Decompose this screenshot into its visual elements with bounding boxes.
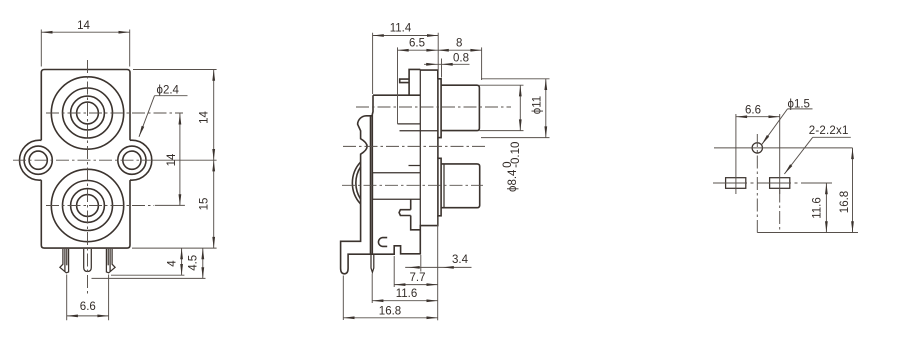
dimension 3.4: arrow b <box>443 266 454 269</box>
right column extension: body bottom <box>132 247 217 249</box>
dimension 4: extension bottom <box>111 274 184 276</box>
svg-text:7.7: 7.7 <box>410 272 426 284</box>
upper hidden line a <box>398 123 421 125</box>
upper barrel <box>441 85 479 130</box>
rounded tab B <box>378 238 387 247</box>
phi8.4 dimension line <box>519 85 521 130</box>
spring clip inner arc <box>356 167 361 199</box>
left pin inner line a <box>64 249 66 271</box>
right ear hole <box>123 151 141 169</box>
body white mask <box>41 70 130 249</box>
phi1.5 underline <box>788 108 813 110</box>
2-2.2x1 underline <box>813 136 851 138</box>
bottom RCA port circle 1 <box>51 169 123 241</box>
tab A vertical above <box>410 199 412 210</box>
dimension 0.8: left arrow <box>426 63 437 66</box>
top block 1 <box>409 69 420 95</box>
top RCA port circle 1 <box>51 77 123 149</box>
svg-text:11.6: 11.6 <box>396 288 418 300</box>
svg-text:14: 14 <box>199 111 211 124</box>
phi2.4 leader arrow <box>139 96 155 137</box>
left pin inner line b <box>66 249 68 265</box>
top RCA port circle 4 <box>77 102 99 124</box>
top RCA port circle 3 <box>71 96 105 130</box>
dimension 14 top: dimension line <box>41 31 129 33</box>
svg-text:15: 15 <box>199 198 211 211</box>
dimension 6.6: extension lines <box>67 275 109 321</box>
left ear hole <box>29 151 47 169</box>
mounting hole phi1.5 <box>752 143 762 153</box>
dimension 11.4: line <box>373 35 439 37</box>
vertical centerline through hole <box>756 134 758 233</box>
vertical centerline <box>87 60 89 295</box>
inter-flange edge <box>437 138 439 159</box>
upper flange <box>438 79 441 138</box>
main block top edge <box>373 94 420 96</box>
dimension 6.5: line <box>398 49 438 51</box>
ear horizontal centerline <box>13 159 152 161</box>
svg-text:2-2.2x1: 2-2.2x1 <box>809 125 849 137</box>
lower flange <box>438 158 441 216</box>
dimension 16.8: extension <box>342 276 344 321</box>
lower barrel centerline <box>342 184 483 186</box>
svg-text:4.5: 4.5 <box>187 255 199 271</box>
upper small tab <box>400 79 409 83</box>
dimension 7.7: line <box>394 284 438 286</box>
svg-text:14: 14 <box>77 20 90 32</box>
bottom RCA port circle 3 <box>71 189 105 223</box>
dimension 3.4: tail line <box>405 266 471 268</box>
dimension 6.6: dimension line <box>67 315 109 317</box>
dimension 16.8: line <box>343 317 437 319</box>
phi8.4 label with tolerance <box>502 142 522 192</box>
lower barrel face line <box>443 164 445 208</box>
svg-text:ϕ8.4: ϕ8.4 <box>507 169 519 192</box>
shared right extension line <box>437 217 439 321</box>
dimension 8: extension <box>481 47 483 80</box>
dimension 0.8: extension <box>441 59 443 78</box>
dimension 11.6: extension <box>371 274 373 304</box>
body outline <box>41 70 130 249</box>
phi11 dimension line <box>545 79 547 138</box>
svg-text:8: 8 <box>456 37 462 49</box>
upper hidden line b <box>400 130 438 132</box>
dimension 0.8: right arrow <box>442 63 453 66</box>
dimension 6.6: line <box>736 116 780 118</box>
top circle horizontal centerline <box>46 112 183 114</box>
tab A vertical below and step <box>411 216 421 230</box>
dimension 15 right lower: dimension line <box>213 160 215 248</box>
svg-text:11.6: 11.6 <box>811 197 823 219</box>
svg-text:14: 14 <box>166 153 178 166</box>
bottom circle horizontal centerline <box>46 205 154 207</box>
dimension 16.8: line <box>852 148 854 233</box>
dimension 8: line <box>438 49 482 51</box>
phi1.5 leader arrow <box>762 109 788 145</box>
dimension 0.8: tail line <box>424 63 470 65</box>
dimension 14 inner: dimension line <box>179 113 181 205</box>
svg-text:6.5: 6.5 <box>409 37 425 49</box>
bottom RCA port circle 2 <box>63 181 113 231</box>
bottom extension line <box>757 232 858 234</box>
front plate inner line <box>370 116 372 254</box>
right pin outline <box>106 249 115 273</box>
dimension 11.6: line <box>372 300 438 302</box>
svg-text:0.8: 0.8 <box>453 53 469 65</box>
horizontal centerline through hole <box>714 147 853 149</box>
dimension 14 inner: extension bottom <box>155 204 185 206</box>
phi11 extensions <box>481 79 550 138</box>
svg-text:6.6: 6.6 <box>80 301 96 313</box>
side view center pin <box>371 254 374 272</box>
lower barrel <box>441 164 480 208</box>
dimension 14 top: extension lines <box>41 30 129 67</box>
2-2.2x1 leader arrow <box>784 137 812 174</box>
dimension 4.5: extension bottom <box>92 277 206 279</box>
left pad <box>726 178 746 189</box>
right column extension: ear centerline <box>152 159 217 161</box>
horizontal centerline through pads <box>713 182 832 184</box>
upper barrel centerline <box>356 106 511 108</box>
svg-text:6.6: 6.6 <box>745 105 761 117</box>
internal vertical divider <box>419 69 421 225</box>
right ear ring outer <box>118 146 146 174</box>
dimension 11.6: line <box>825 183 827 233</box>
middle centerline <box>343 145 485 147</box>
front plate outer profile with dimple, mounting leg, bottom steps <box>341 116 438 274</box>
vertical centerline below right pad <box>779 190 781 233</box>
svg-text:16.8: 16.8 <box>379 305 401 317</box>
spring clip outer arc <box>352 162 360 204</box>
left ear outer arc <box>20 140 60 180</box>
cavity rectangle <box>373 173 421 199</box>
dimension 14 right upper: dimension line <box>213 70 215 161</box>
main block left edge with jog <box>371 95 374 254</box>
left ear ring outer <box>24 146 52 174</box>
dimension 7.7: extension <box>393 256 395 287</box>
top block 2 <box>420 70 438 79</box>
top RCA port circle 2 <box>63 88 113 138</box>
svg-text:3.4: 3.4 <box>452 254 469 266</box>
svg-text:16.8: 16.8 <box>839 191 851 213</box>
right column extension: body top <box>133 69 217 71</box>
svg-text:4: 4 <box>166 260 178 267</box>
dimension 6.6: extension lines <box>736 114 780 194</box>
right pad <box>770 178 790 189</box>
bottom RCA port circle 4 <box>77 195 99 217</box>
svg-text:ϕ11: ϕ11 <box>531 96 543 114</box>
cavity stub line <box>409 165 421 167</box>
dimension 3.4: arrow a <box>409 266 420 269</box>
svg-text:11.4: 11.4 <box>390 23 412 35</box>
dimension 4: dimension line <box>181 248 183 275</box>
svg-text:-0.10: -0.10 <box>510 142 522 168</box>
phi8.4 extensions <box>479 85 523 130</box>
phi2.4 underline <box>155 95 188 97</box>
dimension 3.4: extension <box>420 255 422 272</box>
dimension 11.4: extensions <box>373 33 439 94</box>
lower right tab A <box>399 210 411 216</box>
right pin inner line a <box>109 249 111 271</box>
dimension 6.5: extension <box>397 47 399 124</box>
right pin inner line b <box>107 249 109 265</box>
center pin <box>84 249 92 272</box>
right ear outer arc <box>112 140 152 180</box>
dimension 4.5: dimension line <box>202 248 204 278</box>
left pin outline <box>60 249 69 273</box>
svg-text:ϕ2.4: ϕ2.4 <box>157 85 180 97</box>
